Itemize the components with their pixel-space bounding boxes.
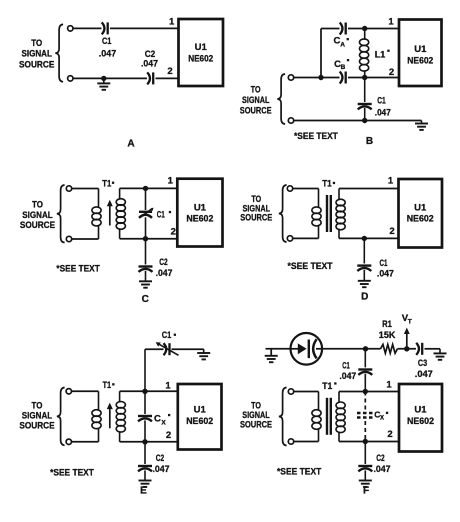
svg-text:*SEE TEXT: *SEE TEXT — [288, 261, 333, 272]
svg-text:*SEE TEXT: *SEE TEXT — [50, 467, 94, 478]
svg-text:1: 1 — [168, 176, 174, 187]
svg-text:*SEE TEXT: *SEE TEXT — [277, 467, 321, 478]
svg-text:X: X — [161, 419, 166, 426]
svg-text:U1: U1 — [194, 405, 207, 416]
svg-text:*SEE TEXT: *SEE TEXT — [56, 264, 100, 275]
svg-text:B: B — [366, 136, 373, 147]
svg-text:TO: TO — [31, 38, 42, 49]
svg-text:2: 2 — [166, 430, 171, 441]
svg-text:1: 1 — [165, 381, 171, 392]
svg-text:C1: C1 — [162, 330, 172, 341]
svg-text:SOURCE: SOURCE — [240, 105, 272, 116]
svg-text:C2: C2 — [156, 453, 165, 464]
svg-text:U1: U1 — [414, 203, 427, 214]
svg-text:.047: .047 — [153, 464, 170, 475]
svg-text:NE602: NE602 — [407, 416, 434, 427]
svg-text:.047: .047 — [375, 108, 391, 119]
svg-text:SOURCE: SOURCE — [20, 220, 55, 231]
svg-text:SOURCE: SOURCE — [19, 421, 54, 432]
svg-text:C3: C3 — [418, 358, 427, 369]
svg-text:NE602: NE602 — [407, 56, 433, 67]
svg-text:NE602: NE602 — [186, 416, 213, 427]
svg-text:SOURCE: SOURCE — [240, 213, 272, 224]
svg-text:D: D — [361, 292, 368, 303]
svg-text:2: 2 — [167, 66, 172, 77]
svg-text:C2: C2 — [376, 453, 385, 464]
svg-text:15K: 15K — [379, 330, 396, 341]
svg-text:T1: T1 — [103, 380, 112, 391]
svg-text:1: 1 — [386, 380, 392, 391]
svg-text:SIGNAL: SIGNAL — [22, 49, 53, 60]
svg-text:T1: T1 — [322, 179, 332, 190]
svg-text:T: T — [408, 318, 412, 325]
svg-text:L1: L1 — [375, 49, 386, 60]
svg-text:E: E — [140, 486, 147, 497]
svg-text:2: 2 — [387, 429, 392, 440]
svg-text:.047: .047 — [99, 49, 117, 60]
svg-text:T1: T1 — [322, 381, 333, 392]
svg-text:.047: .047 — [377, 269, 394, 280]
svg-text:.047: .047 — [415, 369, 433, 380]
svg-text:C1: C1 — [380, 258, 388, 269]
svg-text:2: 2 — [171, 226, 176, 237]
svg-text:C1: C1 — [102, 36, 112, 47]
svg-text:NE602: NE602 — [186, 213, 213, 224]
svg-text:C1: C1 — [377, 96, 386, 107]
svg-text:R1: R1 — [382, 319, 392, 330]
svg-text:C: C — [154, 414, 161, 425]
svg-text:A: A — [127, 138, 134, 149]
svg-text:X: X — [380, 416, 384, 422]
svg-text:1: 1 — [388, 176, 394, 187]
svg-text:2: 2 — [389, 226, 394, 237]
svg-text:T1: T1 — [102, 178, 112, 189]
svg-text:C2: C2 — [159, 257, 168, 268]
svg-text:.047: .047 — [374, 464, 391, 475]
svg-text:U1: U1 — [195, 42, 208, 53]
svg-text:U1: U1 — [414, 44, 427, 55]
svg-text:SIGNAL: SIGNAL — [242, 95, 270, 106]
svg-text:NE602: NE602 — [407, 214, 434, 225]
svg-text:.047: .047 — [141, 59, 158, 70]
svg-text:SOURCE: SOURCE — [240, 420, 272, 431]
svg-text:.047: .047 — [156, 268, 173, 279]
svg-text:*SEE TEXT: *SEE TEXT — [294, 131, 338, 142]
svg-text:B: B — [341, 64, 346, 71]
svg-text:F: F — [363, 486, 369, 497]
svg-text:2: 2 — [389, 67, 394, 78]
svg-text:1: 1 — [388, 17, 394, 28]
svg-text:NE602: NE602 — [188, 54, 213, 65]
svg-text:C: C — [142, 294, 149, 305]
svg-text:.047: .047 — [339, 371, 356, 382]
svg-text:U1: U1 — [194, 202, 207, 213]
svg-text:U1: U1 — [414, 405, 427, 416]
svg-text:A: A — [340, 41, 345, 48]
svg-text:C1: C1 — [342, 360, 350, 371]
svg-text:TO: TO — [251, 84, 261, 95]
svg-text:C1: C1 — [157, 210, 165, 221]
svg-text:SOURCE: SOURCE — [19, 59, 54, 70]
svg-text:1: 1 — [169, 16, 175, 27]
